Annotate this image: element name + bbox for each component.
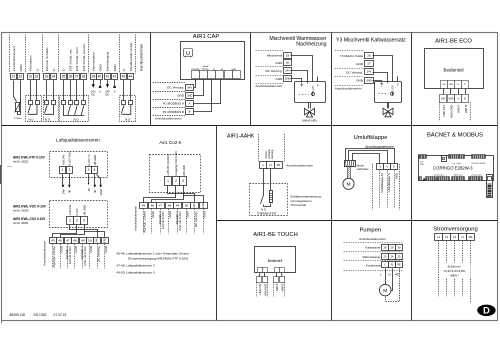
terminal PE [467,234,475,241]
wire TOUCH pin to terminal [264,272,266,276]
wire heater bottom to switch [264,204,271,207]
AIR1 CAP pin terminal 2 [200,71,208,79]
svg-text:AIR1-BE ECO: AIR1-BE ECO [435,39,472,45]
terminal GND (HMI) [448,95,455,103]
terminal HMI 1 [257,277,262,283]
svg-text:48: 48 [68,189,72,193]
dashed supply line L2 [446,240,448,296]
row separator dashed [153,82,185,84]
actuator pin U stub [317,77,319,82]
dashed lead terminal 48 [168,209,170,234]
wire PE dashed to pump motor [386,269,400,302]
svg-text:24V: 24V [61,189,65,194]
svg-text:AQ/AQE 1/Temp: AQ/AQE 1/Temp [143,211,147,233]
svg-text:M: M [383,288,387,294]
svg-text:PE: PE [469,235,473,239]
terminal 27 (GND) [365,61,374,67]
svg-text:GND: GND [420,164,425,166]
svg-text:HMI GND: HMI GND [263,284,267,296]
wire terminal 32 down [36,80,38,101]
svg-text:48: 48 [168,204,172,208]
dashed bracket [267,282,269,297]
row separator dashed [256,50,284,52]
svg-text:GND: GND [185,211,189,217]
dashed bracket [256,282,258,297]
terminal strip (bottom right) [469,177,483,181]
arrow to GND [99,185,102,188]
dashed bracket [284,282,286,297]
svg-text:Modus: Modus [202,68,209,70]
svg-text:400V~: 400V~ [450,274,459,278]
valve actuator box (Warmwasser) [295,82,326,103]
group separator dashed line [88,35,90,74]
svg-text:Art-Nr. 26252: Art-Nr. 26252 [13,159,29,163]
terminal 40 [97,74,103,80]
svg-text:(Temperaturausgang AIR1/KWL-FT: (Temperaturausgang AIR1/KWL-FTF 0-10V) [128,256,189,260]
wire TOUCH pin to terminal [281,272,283,276]
svg-text:Mischventil: Mischventil [267,54,283,58]
dashed enclosure external switch contact [44,96,59,122]
svg-text:50: 50 [185,204,189,208]
svg-text:47: 47 [66,239,70,243]
terminal N [459,234,467,241]
wire FTF pin 3 down [88,174,90,183]
svg-text:D: D [483,306,490,317]
terminal 22 [18,74,24,80]
svg-text:49: 49 [81,239,85,243]
FTF sensor pin 3 [86,167,92,174]
terminal 44 [128,74,134,80]
terminal 19 (Mischventil) [284,53,292,59]
svg-text:Feueralarm: Feueralarm [29,55,33,71]
flexible conduit to motor [347,167,350,178]
plug connector (Steckverbinder) [345,161,356,168]
svg-text:36: 36 [69,75,73,79]
svg-text:33: 33 [45,75,49,79]
svg-text:45: 45 [87,188,91,192]
svg-text:U: U [317,83,319,87]
svg-text:29: 29 [391,246,394,250]
TOUCH pin 4 [280,268,285,273]
wire Co2K pin 2 to terminal 45 [144,186,176,203]
terminal 24V (HMI) [440,95,447,103]
row separator dashed [344,242,403,244]
svg-text:DC Versorg.: DC Versorg. [346,70,363,74]
wire TOUCH pin to terminal [275,272,277,276]
svg-text:GND: GND [74,246,78,252]
wire GND terminal to actuator [373,81,382,82]
svg-text:GND: GND [202,203,205,209]
row separator dashed [153,99,185,101]
group separator dashed line [42,35,44,74]
terminal 46 [149,203,157,209]
svg-text:42: 42 [113,75,117,79]
svg-text:Anschlussklemmen: Anschlussklemmen [155,116,182,120]
svg-text:N: N [388,272,390,276]
wire connector pin 3 to terminal 3 [353,154,380,164]
dashed lead terminal 46 [60,244,62,269]
svg-text:2: 2 [76,219,78,223]
svg-text:0-10V °C: 0-10V °C [87,154,91,165]
svg-text:Ausgang CO2 0-10V: Ausgang CO2 0-10V [174,151,178,176]
wire CAP A pin to MODBUS A terminal [194,80,221,104]
terminal 36 [68,74,74,80]
terminal GND [284,76,292,82]
wire FTF pin 1 down [62,174,64,185]
wire terminal 26 to actuator signal pin [373,56,393,82]
three-way mixing valve Y (WHS HE) [305,108,315,117]
svg-text:85499 118: 85499 118 [10,313,26,317]
svg-text:THERMOSTAT: THERMOSTAT [257,211,277,215]
supply marker triangle [423,178,425,181]
svg-text:HMI 24V: HMI 24V [442,105,446,117]
dashed lead GND [394,170,396,208]
terminal 47 [65,238,72,244]
row separator dashed [335,68,364,70]
svg-text:UB GND: UB GND [93,155,97,166]
svg-text:AIR1 KWL-FTF 0-10V: AIR1 KWL-FTF 0-10V [13,155,46,159]
section divider horizontal [217,220,498,222]
svg-text:Y3 Mischventil Kaltwassersatz: Y3 Mischventil Kaltwassersatz [336,37,406,43]
wire Co2K pin 3 branch to terminal 46 [152,196,184,203]
motor M (Umluftklappe actuator) [343,178,354,189]
svg-text:C-: C- [35,68,39,71]
svg-text:+UB 24V: +UB 24V [68,204,72,215]
wire VOC pin 3 branch to terminal 46 [61,232,85,238]
dashed bracket [273,282,275,297]
wire terminal 44 down [130,80,132,101]
wire ECO pin to HMI terminal [450,88,452,94]
svg-text:Luft set 0-10V: Luft set 0-10V [161,211,165,229]
drawing frame border [0,165,2,184]
terminal 49 [174,203,182,209]
resistor PT1000 frost sensor [15,101,21,113]
svg-text:GND: GND [356,79,364,83]
svg-text:N.O: N.O [74,117,80,121]
display window [442,156,447,162]
arrow 24V DC output (terminal 41) [106,84,109,88]
svg-text:Umluftklappe: Umluftklappe [354,135,388,141]
dashed lead terminal GND [104,244,106,269]
wire GND terminal to actuator [291,79,302,82]
svg-text:N.O: N.O [28,117,34,121]
dashed lead terminal 47 [160,209,162,234]
group separator dashed line [9,35,11,74]
terminal 47 [157,203,165,209]
terminal L3 [451,234,459,241]
terminal 23 (Warmwasser) [382,254,389,260]
svg-text:26: 26 [367,54,371,58]
group separator dashed line [58,35,60,74]
svg-text:P1 MODBUS B: P1 MODBUS B [163,110,184,114]
svg-text:KWL set 0-10V: KWL set 0-10V [178,211,182,230]
wire ECO pin to HMI terminal [458,88,460,94]
TOUCH pin 1 [258,268,263,273]
dashed supply line N [462,240,464,296]
svg-text:Nachheizung: Nachheizung [296,42,326,48]
svg-text:24V: 24V [441,98,446,100]
terminal 5 [391,164,398,170]
svg-text:GND: GND [113,64,117,72]
svg-text:EXT Schalt. intensiv: EXT Schalt. intensiv [82,43,86,71]
svg-text:40: 40 [98,75,102,79]
arrow 0V return (terminal 40) [99,84,102,88]
svg-text:UB GND: UB GND [182,165,186,176]
wire N to pump motor [391,269,393,291]
svg-text:GND: GND [104,246,108,252]
svg-text:DC Versorg.: DC Versorg. [96,246,100,262]
row separator dashed [153,107,185,109]
wire terminal 42 stub [114,80,116,84]
svg-text:GND: GND [99,189,103,195]
svg-text:1: 1 [62,168,64,172]
svg-text:45: 45 [51,239,55,243]
terminal HMI 4 [280,277,285,283]
terminal 33 [44,74,50,80]
AIR1-BE ECO pin 24V [441,81,448,89]
svg-text:46: 46 [93,189,97,193]
terminal 46 [57,238,64,244]
thermostat N.O. switch blade [261,196,264,204]
svg-text:C-: C- [62,68,66,71]
svg-text:GND: GND [177,93,185,97]
terminal HMI 2 [263,277,268,283]
svg-text:24V: 24V [367,69,372,73]
dashed lead terminal 49 [177,209,179,234]
svg-text:43: 43 [122,75,126,79]
terminal 24V (DC Versorg.) [365,69,374,75]
svg-text:L1: L1 [437,235,441,239]
svg-text:Thermostat: Thermostat [290,203,306,207]
valve stem [387,103,389,109]
svg-text:C-: C- [122,68,126,71]
svg-text:GND: GND [104,238,107,244]
three-way mixing valve Y3 [383,108,393,117]
actuator internal dashes [299,94,310,96]
svg-text:GND: GND [19,64,23,72]
svg-text:GND: GND [168,211,172,217]
svg-text:24V/GND: 24V/GND [192,69,201,71]
actuator internal ground symbol [380,82,383,87]
actuator potentiometer symbol [312,92,315,96]
AIR1 CAP pin terminal 4 [216,71,224,79]
svg-text:Anschlussklemmen: Anschlussklemmen [42,241,46,266]
terminal strip (top right) [472,155,486,159]
svg-text:analog input: analog input [434,173,444,176]
AIR1 CAP pin terminal 1 [192,71,200,79]
FTF sensor pin 2 [67,167,73,174]
svg-text:PE: PE [397,263,401,267]
dashed lead terminal 45 [52,244,54,269]
terminal GND [365,78,374,84]
dashed bracket left [372,164,374,210]
dashed enclosure EXT Schalt contacts [60,96,89,122]
terminal strip (bottom mid-left) [437,177,450,181]
svg-text:GND: GND [449,84,454,86]
svg-text:Kaltwasser: Kaltwasser [365,246,380,250]
terminal HMI 3 [274,277,279,283]
terminal 42 [112,74,118,80]
terminal A (HMI) [455,95,462,103]
terminal 37 [74,74,80,80]
AIR1 CAP pin terminal 6 [233,71,241,79]
wire terminal 38 down [83,80,85,101]
wire ECO pin to HMI terminal [443,88,445,94]
terminal PE (Kondensat) [396,262,403,268]
svg-text:PE: PE [395,272,399,276]
svg-text:GND: GND [151,211,155,217]
svg-text:25: 25 [398,255,401,259]
svg-text:Warmwasser: Warmwasser [363,255,381,259]
terminal 25 (Warmwasser) [396,254,403,260]
terminal 45 [50,238,57,244]
wire L to pump motor [385,268,387,284]
svg-text:C-: C- [52,68,56,71]
row separator dashed [344,270,403,272]
svg-text:BACNET & MODBUS: BACNET & MODBUS [427,132,483,138]
svg-text:SS-1333: SS-1333 [34,313,47,317]
terminal 35 [61,74,67,80]
wire L to thermostat switch [263,168,265,196]
svg-text:L2: L2 [445,235,449,239]
wire terminal 39 stub [93,80,95,84]
svg-text:Triac output: Triac output [452,162,462,165]
svg-text:Art-Nr. 26250: Art-Nr. 26250 [13,208,29,212]
svg-text:3: 3 [88,168,90,172]
row separator dashed [335,50,364,52]
svg-text:24V: 24V [96,238,99,243]
svg-text:24V: 24V [187,86,192,90]
terminal strip (bottom far left) [419,177,422,181]
AIR1-BE ECO Bedienteil box [425,49,484,89]
terminal 34 [51,74,57,80]
heater element with thermostat [269,191,272,203]
dashed enclosure FTF sensor [50,152,108,178]
svg-text:GND: GND [394,173,398,179]
actuator internal ground symbol [300,82,303,87]
svg-text:GND: GND [202,211,206,217]
switch S1 fire alarm N.O. contact [28,101,40,115]
wire terminal 21 to PT1000 [14,81,17,102]
svg-text:UB GND: UB GND [82,205,86,216]
switch S2 external switch N.O. contact [45,101,56,115]
dashed enclosure Schaltschrankheizung [250,184,288,216]
svg-text:HMI A: HMI A [275,283,279,291]
wire terminal 31 down [30,80,32,101]
Air1 Co2 K pin 3 [180,177,187,186]
arrow to terminal 45 [88,183,90,185]
svg-text:49-50: Luftqualitätssensor 3: 49-50: Luftqualitätssensor 3 [117,270,155,274]
terminal GND [200,203,208,209]
svg-text:Y3 Mischv. Kaltw: Y3 Mischv. Kaltw [340,54,364,58]
svg-text:Umluftklappe S: Umluftklappe S [387,173,391,191]
wire terminal 43 down [123,80,125,101]
svg-text:verbinder: verbinder [357,167,369,171]
svg-text:HMI GND: HMI GND [449,104,453,118]
svg-text:HMI A: HMI A [457,105,461,113]
svg-text:HMI B: HMI B [464,105,468,113]
revision mark D [477,305,495,317]
AIR1-BE TOUCH Bedienteil box [255,247,296,273]
dashed lead terminal 45 [143,209,145,234]
svg-text:1: 1 [167,179,169,183]
svg-text:24V: 24V [285,68,290,72]
terminal 38 [81,74,87,80]
wire FTF pin 4 down [94,174,96,185]
Air1 Co2 K pin 1 [165,177,172,186]
group separator dashed line [119,35,121,74]
svg-text:MODBUS RS485: MODBUS RS485 [472,163,486,165]
svg-text:48: 48 [73,239,77,243]
section divider [216,126,218,321]
svg-text:Anschlussklemmen: Anschlussklemmen [140,44,144,72]
Air1 Co2 K pin 2 [173,177,180,186]
terminal 24V (DC Versorg.) [284,68,292,74]
dashed bracket left [258,134,260,161]
svg-text:0-10V: 0-10V [313,85,315,92]
svg-text:PE: PE [277,163,281,167]
svg-text:N.O: N.O [45,117,51,121]
wire 24V terminal to actuator [291,71,308,82]
wire terminal 40 stub [100,80,102,84]
svg-text:Anschlussklemmen: Anschlussklemmen [286,164,313,168]
svg-text:45: 45 [142,204,146,208]
svg-text:P1 MODBUS A: P1 MODBUS A [163,102,185,106]
svg-text:N: N [461,235,463,239]
svg-text:GND: GND [98,64,102,72]
pump motor M [379,284,391,296]
wire terminal 35 down [63,80,65,101]
terminal strip (top middle) [449,155,465,159]
svg-text:Betriebssignal: Betriebssignal [106,52,110,72]
svg-text:20: 20 [286,61,290,65]
terminal strip (bottom middle) [452,177,465,181]
terminal 30 (Kaltwasser) [396,245,403,251]
svg-text:5x16mm²,: 5x16mm², [448,264,462,268]
svg-text:Kondensat: Kondensat [366,264,381,268]
row separator dashed [153,115,185,117]
row separator dashed [335,76,364,78]
svg-text:24: 24 [391,255,394,259]
svg-text:Luft set 0-10V: Luft set 0-10V [68,246,72,264]
wire CAP GND pin to GND terminal [194,80,204,96]
svg-text:DC: DC [91,92,95,96]
dashed enclosure Umluft switch contact [120,96,136,122]
terminal N [267,162,275,169]
arrow to terminal 48 [68,185,71,188]
terminal 20 (GND) [284,60,292,66]
dashed lead terminal 48 [74,244,76,269]
svg-text:39: 39 [92,75,96,79]
dashed supply line PE [470,240,472,303]
row separator dashed [256,66,284,68]
arrow 0V return (terminal 42) [113,84,116,88]
arrow to 24V supply [62,185,65,188]
dashed bracket right [399,164,401,210]
terminal 3 [377,164,384,170]
svg-text:0-10V: 0-10V [392,85,394,92]
svg-text:GND: GND [285,77,291,80]
terminal 26 (Y3 Mischv. Kaltw) [365,53,374,59]
terminal N (Kondensat) [389,262,396,268]
svg-text:31: 31 [29,75,33,79]
svg-text:Anschlussklemmen: Anschlussklemmen [335,87,362,91]
switch S3 EXT Schalt selector contacts [62,101,86,116]
arrow 24V DC output (terminal 39) [92,84,95,88]
row separator dashed [344,251,403,253]
svg-text:L3: L3 [453,235,457,239]
terminal B (P1 MODBUS B) [186,109,194,115]
